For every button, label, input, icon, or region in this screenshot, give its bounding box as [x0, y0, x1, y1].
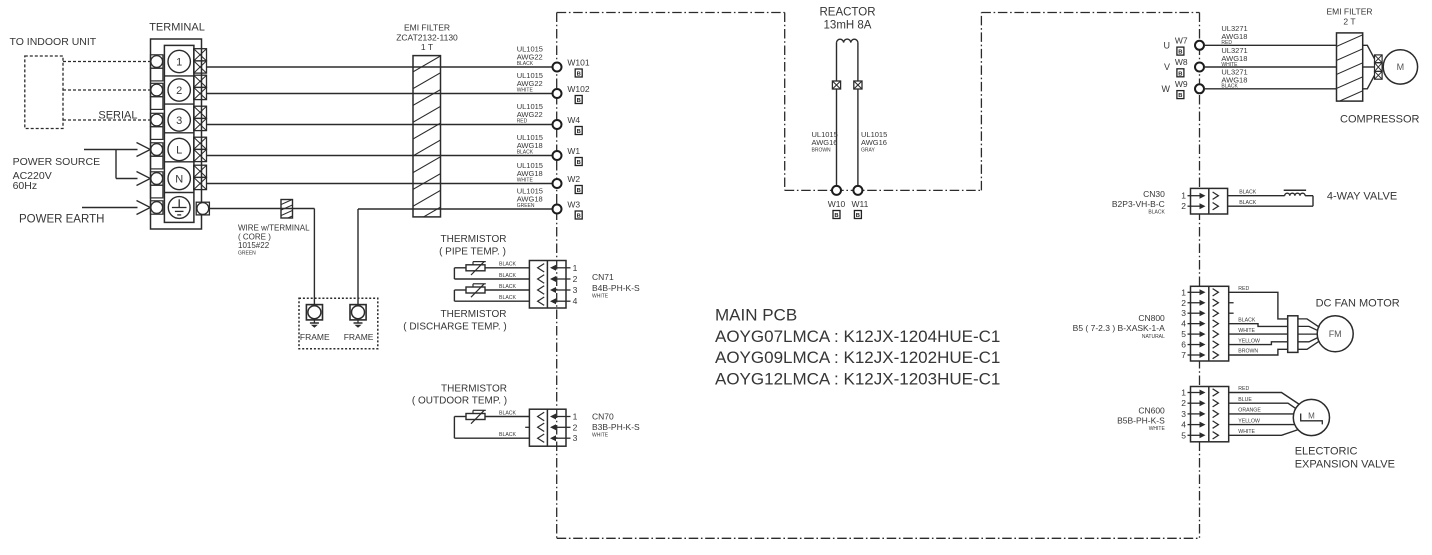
node W7 connector (phase U)	[1164, 36, 1205, 56]
svg-text:( OUTDOOR TEMP. ): ( OUTDOOR TEMP. )	[412, 396, 507, 407]
svg-text:YELLOW: YELLOW	[1238, 418, 1260, 424]
svg-text:B: B	[577, 129, 581, 135]
svg-text:7: 7	[1181, 350, 1186, 360]
svg-text:3: 3	[1181, 409, 1186, 419]
CN600 labels	[1117, 406, 1165, 433]
svg-text:ELECTORIC: ELECTORIC	[1295, 446, 1358, 458]
ELECTORIC EXPANSION VALVE label	[1295, 446, 1395, 471]
connector CN71 B4B-PH-K-S	[529, 261, 577, 309]
wire label UL1015 AWG18 WHITE	[517, 161, 543, 184]
expansion valve motor M2	[1293, 399, 1329, 435]
svg-text:WHITE: WHITE	[592, 433, 609, 439]
connector CN30 B2P3-VH-B-C	[1181, 188, 1227, 214]
reactor right lead wire	[857, 43, 859, 186]
terminal 1	[151, 49, 207, 81]
svg-text:B5 ( 7-2.3 ) B-XASK-1-A: B5 ( 7-2.3 ) B-XASK-1-A	[1073, 323, 1165, 333]
svg-text:AWG16: AWG16	[812, 138, 838, 147]
wire label UL1015 AWG22 RED	[517, 102, 543, 125]
valve wire RED (pin1)	[1229, 393, 1300, 405]
svg-text:MAIN PCB: MAIN PCB	[715, 306, 797, 325]
svg-text:ZCAT2132-1130: ZCAT2132-1130	[396, 33, 458, 43]
svg-text:W7: W7	[1175, 36, 1188, 46]
frame ground enclosure (dotted)	[299, 298, 378, 348]
svg-text:60Hz: 60Hz	[13, 180, 38, 192]
svg-text:B5B-PH-K-S: B5B-PH-K-S	[1117, 416, 1165, 426]
wire label UL1015 AWG22 WHITE	[517, 71, 543, 94]
svg-text:B: B	[577, 188, 581, 194]
svg-text:POWER EARTH: POWER EARTH	[19, 214, 104, 226]
arrow into terminal earth	[137, 201, 151, 215]
dashed wire to terminal 1	[63, 61, 151, 63]
svg-text:13mH 8A: 13mH 8A	[824, 20, 872, 32]
svg-text:BROWN: BROWN	[1238, 349, 1258, 355]
svg-text:B: B	[577, 72, 581, 78]
svg-text:BROWN: BROWN	[812, 148, 832, 154]
svg-text:( DISCHARGE TEMP. ): ( DISCHARGE TEMP. )	[403, 322, 507, 333]
svg-text:AWG16: AWG16	[861, 138, 887, 147]
svg-text:( PIPE TEMP. ): ( PIPE TEMP. )	[439, 247, 506, 258]
svg-text:B2P3-VH-B-C: B2P3-VH-B-C	[1112, 199, 1165, 209]
svg-text:B: B	[1178, 50, 1182, 56]
svg-text:U: U	[1164, 41, 1171, 51]
svg-text:BLACK: BLACK	[1221, 84, 1238, 90]
svg-text:2: 2	[573, 422, 578, 432]
connector CN800 B5(7-2.3)B-XASK-1-A	[1181, 286, 1233, 361]
svg-text:4: 4	[1181, 319, 1186, 329]
frame ground 2	[350, 305, 366, 328]
earth wire FRAME2 to W3 (UL1015 AWG18 GREEN)	[358, 209, 553, 306]
svg-text:AWG22: AWG22	[517, 53, 543, 62]
wire W101 (UL1015 AWG22 BLACK)	[207, 66, 553, 68]
earth wire from terminal to core filter and FRAME	[209, 209, 314, 306]
svg-text:W11: W11	[851, 199, 868, 209]
svg-text:2: 2	[1181, 298, 1186, 308]
CN800 labels	[1073, 313, 1165, 340]
svg-text:B: B	[577, 160, 581, 166]
wire label UL1015 AWG22 BLACK	[517, 44, 543, 67]
svg-text:WHITE: WHITE	[1238, 328, 1255, 334]
frame ground 1	[306, 305, 322, 328]
svg-text:RED: RED	[1238, 386, 1249, 392]
compressor feed wires after filter	[1363, 45, 1375, 89]
wire W1 (UL1015 AWG18 BLACK)	[207, 155, 553, 157]
terminal earth (ground symbol)	[151, 197, 210, 219]
indoor unit dashed box	[25, 56, 63, 129]
CN70 labels	[592, 412, 640, 439]
CN30 labels	[1112, 189, 1166, 215]
svg-text:BLACK: BLACK	[499, 295, 517, 301]
svg-text:AOYG09LMCA : K12JX-1202HUE-C1: AOYG09LMCA : K12JX-1202HUE-C1	[715, 348, 1000, 367]
svg-text:B: B	[577, 98, 581, 104]
svg-text:6: 6	[1181, 340, 1186, 350]
svg-text:2: 2	[1181, 201, 1186, 211]
svg-text:BLACK: BLACK	[499, 273, 517, 279]
svg-text:B: B	[1178, 93, 1182, 99]
svg-text:B: B	[856, 213, 860, 219]
svg-text:5: 5	[1181, 329, 1186, 339]
svg-text:B4B-PH-K-S: B4B-PH-K-S	[592, 283, 640, 293]
valve wire WHITE (pin5)	[1229, 430, 1299, 436]
EMI filter ZCAT2132-1130	[396, 23, 458, 241]
svg-text:2 T: 2 T	[1343, 17, 1355, 27]
svg-text:AWG22: AWG22	[517, 110, 543, 119]
svg-text:3: 3	[176, 115, 182, 127]
svg-text:GREEN: GREEN	[238, 251, 256, 257]
main PCB dash-dot border	[557, 13, 1200, 539]
svg-text:SERIAL: SERIAL	[98, 109, 137, 121]
svg-text:BLACK: BLACK	[517, 150, 534, 156]
svg-text:TERMINAL: TERMINAL	[149, 22, 205, 34]
svg-text:AWG18: AWG18	[517, 141, 543, 150]
DC fan motor FM	[1317, 316, 1353, 352]
fan wire BLACK (pin4)	[1229, 324, 1288, 327]
svg-text:BLACK: BLACK	[1148, 210, 1165, 216]
valve wire BLUE (pin2)	[1229, 403, 1296, 409]
POWER SOURCE feed wires with branch	[84, 150, 138, 179]
svg-text:BLACK: BLACK	[1239, 200, 1257, 206]
fan wire WHITE (pin5)	[1229, 333, 1288, 335]
svg-text:CN800: CN800	[1138, 313, 1165, 323]
connector CN600 B5B-PH-K-S	[1181, 387, 1228, 442]
THERMISTOR (DISCHARGE TEMP.) labels	[403, 309, 507, 333]
EMI filter 2T	[1326, 7, 1372, 117]
node W101 connector	[553, 58, 590, 78]
node W8 connector (phase V)	[1164, 57, 1204, 77]
node W1 connector	[553, 146, 583, 166]
svg-text:L: L	[176, 144, 182, 156]
CN71 labels	[592, 272, 640, 300]
svg-text:CN600: CN600	[1138, 406, 1165, 416]
svg-text:1: 1	[176, 56, 182, 68]
node W4 connector	[553, 115, 583, 135]
THERMISTOR (OUTDOOR TEMP.) labels	[412, 384, 507, 407]
node W10 connector	[828, 186, 846, 219]
svg-text:CN70: CN70	[592, 412, 614, 422]
wire label UL1015 AWG18 GREEN	[517, 186, 543, 209]
svg-text:W9: W9	[1175, 79, 1188, 89]
terminal 3	[151, 106, 207, 139]
svg-text:NATURAL: NATURAL	[1142, 334, 1165, 340]
wire label UL3271 AWG18 RED	[1221, 24, 1247, 46]
wire label UL3271 AWG18 WHITE	[1221, 46, 1247, 68]
svg-text:3: 3	[573, 285, 578, 295]
wire W102 (UL1015 AWG22 WHITE)	[207, 93, 553, 95]
wire W4 (UL1015 AWG22 RED)	[207, 124, 553, 126]
svg-text:RED: RED	[517, 119, 528, 125]
wire w/terminal (core) hatched box	[280, 194, 294, 228]
compressor motor M1	[1383, 50, 1417, 84]
svg-text:W: W	[1162, 84, 1171, 94]
reactor left lead wire	[836, 43, 838, 186]
svg-text:W3: W3	[567, 200, 580, 210]
WIRE w/TERMINAL labels	[238, 224, 310, 257]
svg-text:FM: FM	[1329, 329, 1342, 339]
svg-text:EXPANSION VALVE: EXPANSION VALVE	[1295, 459, 1395, 471]
svg-text:1 T: 1 T	[421, 42, 433, 52]
svg-text:M: M	[1397, 62, 1405, 72]
wire W2 (UL1015 AWG18 WHITE)	[207, 183, 553, 185]
svg-text:B: B	[834, 213, 838, 219]
svg-text:2: 2	[1181, 398, 1186, 408]
svg-text:1015#22: 1015#22	[238, 241, 270, 250]
fan wire BROWN (pin7)	[1229, 349, 1288, 355]
svg-text:POWER SOURCE: POWER SOURCE	[13, 156, 101, 168]
MAIN PCB title block	[715, 306, 1000, 389]
node W3 connector	[553, 200, 583, 220]
svg-text:WIRE w/TERMINAL: WIRE w/TERMINAL	[238, 224, 310, 233]
svg-text:AWG22: AWG22	[517, 79, 543, 88]
svg-text:RED: RED	[1238, 286, 1249, 292]
svg-text:ORANGE: ORANGE	[1238, 408, 1261, 414]
svg-text:REACTOR: REACTOR	[819, 7, 875, 19]
svg-text:W10: W10	[828, 199, 846, 209]
svg-text:V: V	[1164, 62, 1170, 72]
svg-text:WHITE: WHITE	[517, 178, 534, 184]
svg-text:THERMISTOR: THERMISTOR	[441, 309, 507, 320]
terminal block TB1	[149, 22, 205, 230]
svg-text:W8: W8	[1175, 57, 1188, 67]
node W9 connector (phase W)	[1162, 79, 1205, 99]
fan motor terminal block	[1288, 316, 1298, 353]
valve wire YELLOW (pin4)	[1229, 424, 1295, 426]
wire label UL1015 AWG16 BROWN	[812, 130, 838, 154]
wire label UL3271 AWG18 BLACK	[1221, 68, 1247, 90]
THERMISTOR (PIPE TEMP.) labels	[439, 234, 506, 258]
svg-text:BLACK: BLACK	[499, 410, 517, 416]
fan wire YELLOW (pin6)	[1229, 342, 1288, 345]
svg-text:2: 2	[176, 85, 182, 97]
svg-text:BLACK: BLACK	[1238, 317, 1256, 323]
svg-text:B: B	[577, 214, 581, 220]
svg-text:W4: W4	[567, 115, 580, 125]
fan wire RED (pin1)	[1229, 292, 1288, 319]
svg-text:BLUE: BLUE	[1238, 397, 1252, 403]
svg-text:B3B-PH-K-S: B3B-PH-K-S	[592, 422, 640, 432]
svg-text:1: 1	[573, 263, 578, 273]
arrow into terminal N	[137, 172, 151, 186]
svg-text:FRAME: FRAME	[344, 332, 374, 342]
svg-text:5: 5	[1181, 430, 1186, 440]
svg-text:WHITE: WHITE	[517, 88, 534, 94]
svg-text:WHITE: WHITE	[592, 294, 609, 300]
svg-text:AWG18: AWG18	[517, 169, 543, 178]
wire label UL1015 AWG16 GRAY	[861, 130, 887, 154]
svg-text:4: 4	[1181, 420, 1186, 430]
svg-text:EMI FILTER: EMI FILTER	[1326, 7, 1372, 17]
svg-text:4: 4	[573, 296, 578, 306]
reactor left terminal (crossed box)	[832, 81, 840, 89]
svg-text:N: N	[175, 173, 183, 185]
svg-text:CN71: CN71	[592, 272, 614, 282]
svg-text:CN30: CN30	[1143, 189, 1165, 199]
svg-text:W102: W102	[567, 84, 589, 94]
svg-text:W1: W1	[567, 146, 580, 156]
svg-text:THERMISTOR: THERMISTOR	[441, 234, 507, 245]
svg-text:2: 2	[573, 274, 578, 284]
compressor terminals (crossed boxes)	[1375, 55, 1383, 79]
4-way valve solenoid coil loop	[1228, 190, 1313, 206]
thermistor TH3 (outdoor temp)	[454, 410, 529, 438]
thermistor TH1 (pipe temp)	[454, 262, 529, 279]
reactor coil	[837, 39, 858, 43]
node W102 connector	[553, 84, 590, 104]
svg-text:W101: W101	[567, 58, 589, 68]
svg-text:BLACK: BLACK	[499, 284, 517, 290]
arrow into terminal L	[137, 143, 151, 157]
svg-text:B: B	[1178, 71, 1182, 77]
svg-text:AWG18: AWG18	[517, 195, 543, 204]
svg-text:EMI FILTER: EMI FILTER	[404, 23, 450, 33]
node W11 connector	[851, 186, 868, 219]
svg-text:GRAY: GRAY	[861, 148, 875, 154]
svg-text:COMPRESSOR: COMPRESSOR	[1340, 114, 1420, 126]
dashed wire to terminal 3 (serial)	[63, 119, 151, 121]
svg-text:BLACK: BLACK	[499, 262, 517, 268]
terminal L	[151, 137, 207, 169]
valve wire ORANGE (pin3)	[1229, 413, 1294, 415]
svg-text:1: 1	[1181, 388, 1186, 398]
svg-text:THERMISTOR: THERMISTOR	[441, 384, 507, 395]
wire W9 (UL3271 AWG18 BLACK)	[1204, 88, 1337, 90]
svg-text:AOYG07LMCA : K12JX-1204HUE-C1: AOYG07LMCA : K12JX-1204HUE-C1	[715, 327, 1000, 346]
wire W7 (UL3271 AWG18 RED)	[1204, 44, 1337, 46]
svg-text:1: 1	[573, 412, 578, 422]
node W2 connector	[553, 174, 583, 194]
svg-text:FRAME: FRAME	[300, 332, 330, 342]
terminal 2	[151, 75, 207, 109]
connector CN70 B3B-PH-K-S	[525, 409, 577, 446]
svg-text:WHITE: WHITE	[1238, 429, 1255, 435]
wire W8 (UL3271 AWG18 WHITE)	[1204, 66, 1337, 68]
svg-text:DC FAN MOTOR: DC FAN MOTOR	[1316, 298, 1400, 310]
svg-text:GREEN: GREEN	[517, 203, 535, 209]
dashed wire to terminal 2	[63, 89, 151, 91]
fan motor lead fan-out	[1298, 319, 1320, 349]
svg-text:W2: W2	[567, 174, 580, 184]
svg-text:WHITE: WHITE	[1149, 426, 1166, 432]
svg-text:1: 1	[1181, 191, 1186, 201]
svg-text:M: M	[1308, 412, 1315, 421]
POWER EARTH wire	[82, 207, 138, 209]
svg-text:TO INDOOR UNIT: TO INDOOR UNIT	[10, 36, 97, 48]
thermistor TH2 (discharge temp)	[454, 284, 529, 301]
svg-text:3: 3	[573, 433, 578, 443]
svg-text:YELLOW: YELLOW	[1238, 338, 1260, 344]
svg-text:AOYG12LMCA : K12JX-1203HUE-C1: AOYG12LMCA : K12JX-1203HUE-C1	[715, 369, 1000, 388]
wire label UL1015 AWG18 BLACK	[517, 133, 543, 156]
svg-text:BLACK: BLACK	[1239, 189, 1257, 195]
svg-text:4-WAY VALVE: 4-WAY VALVE	[1327, 191, 1397, 203]
reactor right terminal (crossed box)	[854, 81, 862, 89]
svg-text:1: 1	[1181, 287, 1186, 297]
svg-text:3: 3	[1181, 308, 1186, 318]
POWER SOURCE labels	[13, 156, 101, 192]
svg-text:BLACK: BLACK	[499, 432, 517, 438]
reactor L1 13mH 8A labels	[819, 7, 875, 32]
svg-text:BLACK: BLACK	[517, 61, 534, 67]
terminal N	[151, 165, 207, 198]
